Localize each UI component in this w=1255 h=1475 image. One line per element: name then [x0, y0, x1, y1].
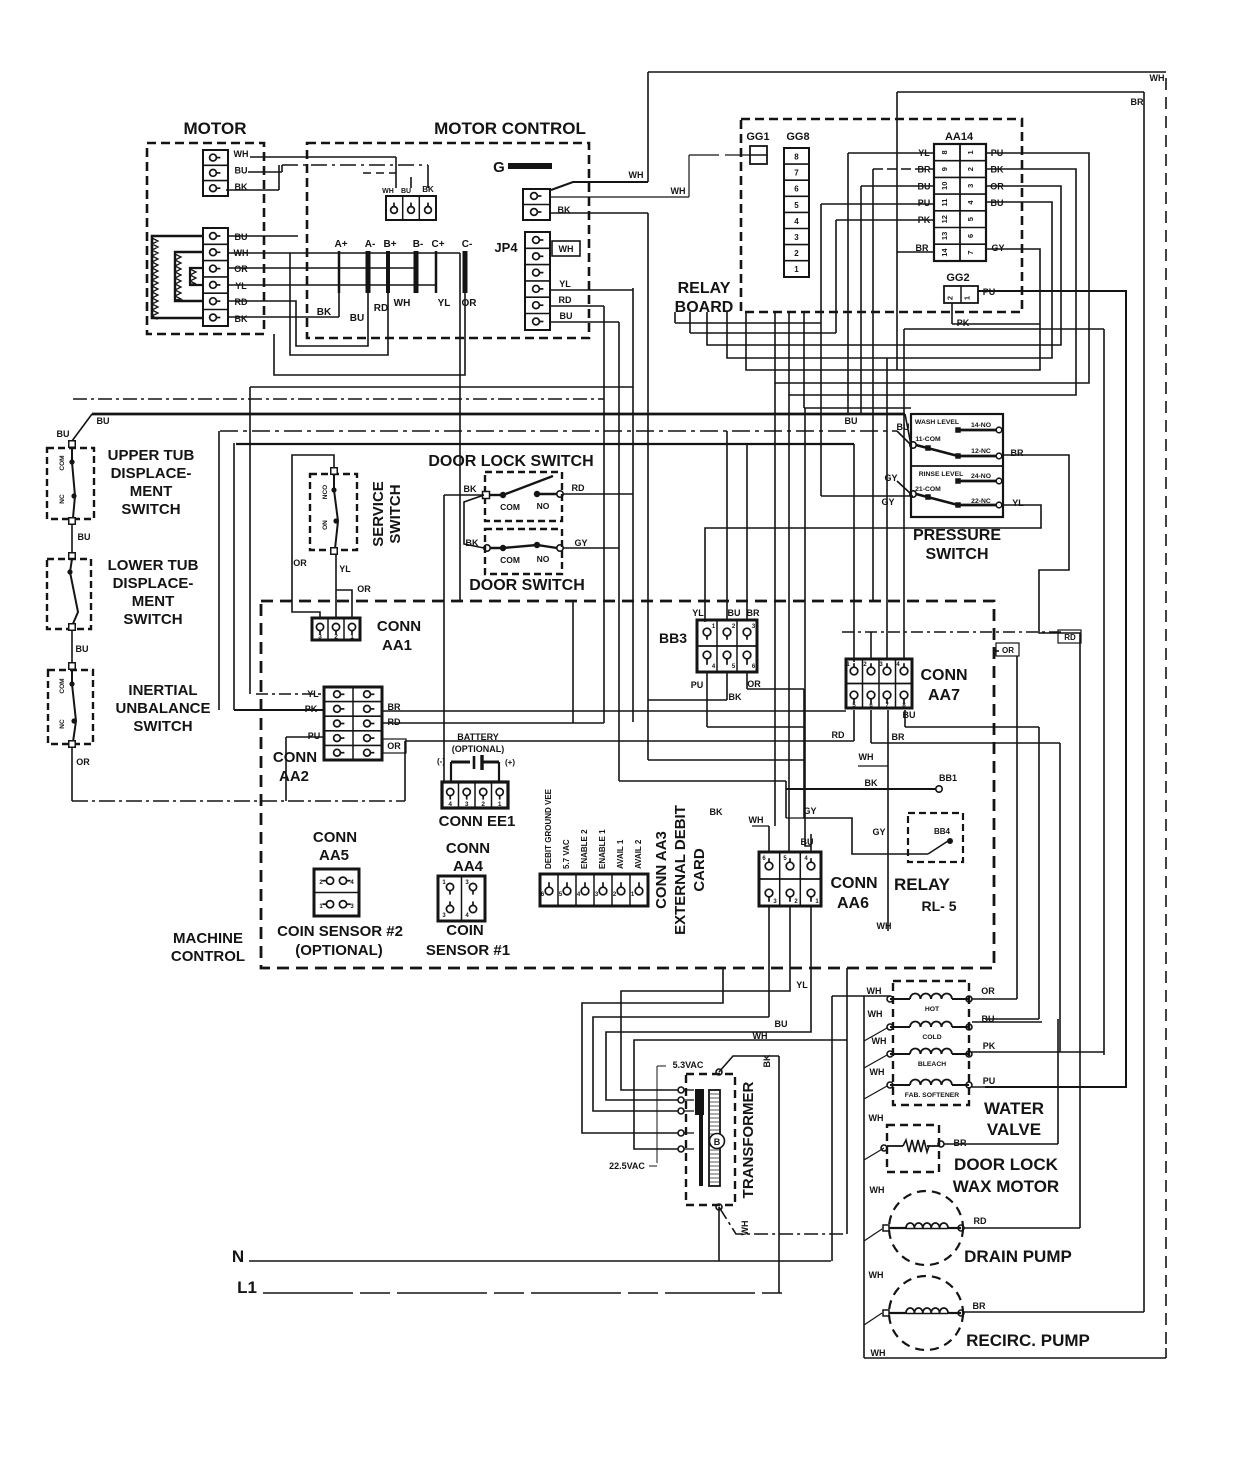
svg-text:BK: BK	[710, 807, 723, 817]
svg-text:CONN: CONN	[920, 667, 967, 684]
svg-text:AA4: AA4	[453, 858, 484, 875]
svg-text:N: N	[232, 1247, 244, 1266]
svg-text:SERVICE: SERVICE	[370, 481, 387, 547]
svg-text:13: 13	[940, 232, 949, 240]
svg-text:2: 2	[946, 296, 955, 300]
svg-text:TRANSFORMER: TRANSFORMER	[740, 1082, 757, 1199]
svg-text:9: 9	[940, 167, 949, 171]
svg-text:(+): (+)	[505, 758, 515, 767]
svg-text:WH: WH	[869, 1270, 884, 1280]
svg-text:(-): (-)	[437, 757, 445, 766]
svg-text:WH: WH	[870, 1067, 885, 1077]
svg-text:WH: WH	[877, 921, 892, 931]
svg-text:YL: YL	[1012, 498, 1024, 508]
svg-text:DOOR SWITCH: DOOR SWITCH	[469, 577, 585, 594]
svg-text:BR: BR	[747, 608, 760, 618]
svg-text:WH: WH	[870, 1185, 885, 1195]
svg-text:BU: BU	[350, 313, 364, 324]
svg-text:COLD: COLD	[922, 1034, 941, 1041]
svg-text:OR: OR	[234, 264, 248, 274]
svg-text:BLEACH: BLEACH	[918, 1061, 946, 1068]
svg-text:OR: OR	[293, 558, 307, 568]
svg-text:COIN SENSOR #2: COIN SENSOR #2	[277, 923, 403, 940]
svg-text:24-NO: 24-NO	[971, 473, 991, 480]
svg-text:PU: PU	[983, 1076, 996, 1086]
svg-text:RD: RD	[388, 717, 401, 727]
svg-text:CONN: CONN	[313, 829, 357, 846]
svg-text:WH: WH	[740, 1221, 750, 1236]
svg-text:5.7 VAC: 5.7 VAC	[562, 839, 571, 869]
svg-text:GY: GY	[872, 827, 885, 837]
svg-text:PU: PU	[691, 680, 704, 690]
svg-text:A-: A-	[365, 239, 376, 250]
svg-text:2: 2	[966, 167, 975, 171]
svg-text:RD: RD	[559, 295, 572, 305]
svg-text:BU: BU	[560, 311, 573, 321]
svg-text:BK: BK	[762, 1054, 772, 1067]
svg-text:BR: BR	[892, 732, 905, 742]
svg-text:SWITCH: SWITCH	[133, 718, 192, 735]
svg-text:BU: BU	[845, 416, 858, 426]
svg-text:BU: BU	[401, 188, 411, 195]
svg-text:BK: BK	[235, 314, 248, 324]
svg-text:BK: BK	[464, 484, 477, 494]
svg-text:1: 1	[966, 150, 975, 154]
svg-text:GG1: GG1	[746, 131, 769, 143]
svg-text:VALVE: VALVE	[987, 1120, 1041, 1139]
svg-text:14: 14	[940, 248, 949, 257]
svg-text:MACHINE: MACHINE	[173, 930, 243, 947]
svg-text:OR: OR	[357, 584, 371, 594]
svg-text:WH: WH	[869, 1113, 884, 1123]
svg-text:COM: COM	[500, 502, 520, 512]
svg-text:PK: PK	[957, 318, 970, 328]
svg-text:CONN: CONN	[273, 749, 317, 766]
svg-text:DOOR LOCK: DOOR LOCK	[954, 1155, 1059, 1174]
svg-text:BATTERY: BATTERY	[457, 732, 499, 742]
svg-text:22-NC: 22-NC	[971, 498, 991, 505]
svg-text:YL: YL	[796, 980, 808, 990]
svg-text:BU: BU	[76, 644, 89, 654]
svg-text:BU: BU	[991, 198, 1004, 208]
svg-text:ENABLE 2: ENABLE 2	[580, 829, 589, 869]
svg-text:COIN: COIN	[446, 922, 484, 939]
svg-text:OR: OR	[387, 741, 401, 751]
svg-text:CONN: CONN	[830, 875, 877, 892]
svg-text:ENABLE 1: ENABLE 1	[598, 829, 607, 869]
svg-text:WH: WH	[629, 170, 644, 180]
svg-text:22.5VAC: 22.5VAC	[609, 1161, 645, 1171]
svg-text:YL: YL	[438, 298, 451, 309]
svg-text:WH: WH	[382, 188, 394, 195]
svg-text:2: 2	[481, 801, 485, 808]
svg-text:RL- 5: RL- 5	[922, 898, 957, 914]
svg-text:WH: WH	[394, 298, 411, 309]
svg-text:NC: NC	[59, 719, 66, 729]
svg-text:BB3: BB3	[659, 630, 687, 646]
svg-text:RINSE LEVEL: RINSE LEVEL	[919, 471, 964, 478]
svg-text:CONN EE1: CONN EE1	[439, 813, 516, 830]
svg-text:BU: BU	[775, 1019, 788, 1029]
svg-text:12-NC: 12-NC	[971, 448, 991, 455]
svg-text:WH: WH	[868, 1009, 883, 1019]
svg-text:NC: NC	[59, 494, 66, 504]
svg-text:5: 5	[966, 217, 975, 221]
svg-text:12: 12	[940, 215, 949, 223]
svg-text:NO: NO	[537, 501, 550, 511]
svg-text:RELAY: RELAY	[894, 875, 951, 894]
svg-text:WH: WH	[859, 752, 874, 762]
svg-text:(OPTIONAL): (OPTIONAL)	[295, 942, 383, 959]
svg-text:SENSOR #1: SENSOR #1	[426, 942, 510, 959]
svg-text:EXTERNAL DEBIT: EXTERNAL DEBIT	[672, 805, 689, 935]
svg-text:YL: YL	[235, 281, 247, 291]
svg-text:SWITCH: SWITCH	[121, 501, 180, 518]
svg-text:8: 8	[794, 153, 799, 162]
svg-text:RD: RD	[374, 303, 388, 314]
svg-text:1: 1	[963, 296, 972, 300]
svg-text:6: 6	[794, 185, 799, 194]
svg-text:COM: COM	[59, 455, 66, 470]
svg-text:B+: B+	[383, 239, 396, 250]
svg-text:2: 2	[334, 634, 338, 641]
svg-text:21-COM: 21-COM	[915, 486, 941, 493]
svg-text:AVAIL 2: AVAIL 2	[634, 839, 643, 869]
svg-text:DISPLACE-: DISPLACE-	[111, 465, 192, 482]
svg-text:PK: PK	[983, 1041, 996, 1051]
svg-text:UNBALANCE: UNBALANCE	[116, 700, 211, 717]
svg-text:1: 1	[794, 265, 799, 274]
svg-text:LOWER TUB: LOWER TUB	[108, 557, 199, 574]
svg-text:DEBIT GROUND VEE: DEBIT GROUND VEE	[544, 788, 553, 869]
svg-text:COM: COM	[59, 678, 66, 693]
svg-text:DRAIN PUMP: DRAIN PUMP	[964, 1247, 1072, 1266]
svg-text:BU: BU	[78, 532, 91, 542]
svg-text:MOTOR: MOTOR	[184, 119, 247, 138]
svg-text:(OPTIONAL): (OPTIONAL)	[452, 744, 505, 754]
svg-text:GY: GY	[803, 806, 816, 816]
svg-text:BB1: BB1	[939, 773, 957, 783]
svg-text:WH: WH	[671, 186, 686, 196]
svg-text:BU: BU	[97, 416, 110, 426]
svg-text:AA6: AA6	[837, 895, 869, 912]
svg-text:GY: GY	[991, 243, 1004, 253]
svg-text:NO: NO	[537, 554, 550, 564]
svg-text:AA2: AA2	[279, 768, 309, 785]
svg-text:WH: WH	[234, 149, 249, 159]
svg-text:AA7: AA7	[928, 687, 960, 704]
svg-text:NCO: NCO	[322, 485, 329, 499]
svg-text:CONTROL: CONTROL	[171, 948, 245, 965]
svg-text:WH: WH	[867, 986, 882, 996]
svg-text:A+: A+	[334, 239, 347, 250]
svg-text:MENT: MENT	[132, 593, 175, 610]
svg-text:10: 10	[940, 182, 949, 190]
svg-text:BR: BR	[1131, 97, 1144, 107]
svg-text:BK: BK	[729, 692, 742, 702]
svg-text:RD: RD	[974, 1216, 987, 1226]
svg-text:B-: B-	[413, 239, 424, 250]
svg-text:4: 4	[794, 217, 799, 226]
svg-text:BU: BU	[235, 166, 248, 176]
svg-text:OR: OR	[76, 757, 90, 767]
svg-text:PRESSURE: PRESSURE	[913, 527, 1001, 544]
svg-text:7: 7	[966, 251, 975, 255]
svg-text:OR: OR	[462, 298, 478, 309]
svg-text:11-COM: 11-COM	[915, 436, 941, 443]
svg-text:8: 8	[940, 150, 949, 154]
svg-text:WH: WH	[753, 1031, 768, 1041]
svg-text:BU: BU	[728, 608, 741, 618]
svg-text:CONN AA3: CONN AA3	[653, 831, 670, 909]
svg-text:7: 7	[794, 169, 799, 178]
svg-text:YL: YL	[692, 608, 704, 618]
svg-text:FAB. SOFTENER: FAB. SOFTENER	[905, 1092, 959, 1099]
svg-text:RD: RD	[235, 297, 248, 307]
svg-text:COM: COM	[500, 555, 520, 565]
svg-text:CONN: CONN	[377, 618, 421, 635]
svg-text:GG2: GG2	[946, 272, 969, 284]
svg-text:ON: ON	[322, 520, 329, 530]
svg-text:WASH LEVEL: WASH LEVEL	[915, 419, 959, 426]
svg-text:UPPER TUB: UPPER TUB	[108, 447, 195, 464]
svg-text:GY: GY	[574, 538, 587, 548]
svg-text:OR: OR	[1002, 646, 1014, 655]
svg-text:BK: BK	[865, 778, 878, 788]
svg-text:INERTIAL: INERTIAL	[128, 682, 197, 699]
svg-text:BOARD: BOARD	[675, 299, 734, 316]
svg-text:3: 3	[465, 801, 469, 808]
svg-text:WH: WH	[871, 1348, 886, 1358]
svg-text:WAX MOTOR: WAX MOTOR	[953, 1177, 1059, 1196]
svg-text:YL: YL	[339, 564, 351, 574]
svg-text:4: 4	[448, 801, 452, 808]
svg-text:WATER: WATER	[984, 1099, 1044, 1118]
svg-text:C-: C-	[462, 239, 473, 250]
svg-text:MENT: MENT	[130, 483, 173, 500]
svg-text:AA5: AA5	[319, 847, 349, 864]
svg-text:WH: WH	[559, 244, 574, 254]
svg-text:BR: BR	[1011, 448, 1024, 458]
svg-text:6: 6	[966, 234, 975, 238]
svg-text:BU: BU	[57, 429, 70, 439]
svg-text:L1: L1	[237, 1278, 257, 1297]
svg-text:OR: OR	[981, 986, 995, 996]
svg-text:RECIRC. PUMP: RECIRC. PUMP	[966, 1331, 1090, 1350]
svg-text:OR: OR	[747, 679, 761, 689]
svg-text:SWITCH: SWITCH	[123, 611, 182, 628]
svg-text:WH: WH	[1150, 73, 1165, 83]
svg-text:1: 1	[350, 634, 354, 641]
svg-text:JP4: JP4	[494, 240, 518, 255]
svg-text:WH: WH	[749, 815, 764, 825]
svg-text:WH: WH	[872, 1036, 887, 1046]
svg-text:YL: YL	[559, 279, 571, 289]
svg-text:DISPLACE-: DISPLACE-	[113, 575, 194, 592]
svg-text:RD: RD	[832, 730, 845, 740]
svg-text:RD: RD	[1064, 633, 1076, 642]
svg-text:3: 3	[794, 233, 799, 242]
svg-text:3: 3	[966, 184, 975, 188]
svg-text:1: 1	[498, 801, 502, 808]
svg-text:11: 11	[940, 199, 949, 207]
svg-text:RELAY: RELAY	[678, 280, 731, 297]
svg-text:C+: C+	[431, 239, 444, 250]
svg-text:14-NO: 14-NO	[971, 422, 991, 429]
svg-text:MOTOR CONTROL: MOTOR CONTROL	[434, 119, 586, 138]
svg-text:5: 5	[794, 201, 799, 210]
svg-text:BB4: BB4	[934, 827, 951, 836]
svg-text:5.3VAC: 5.3VAC	[673, 1060, 704, 1070]
svg-text:SWITCH: SWITCH	[387, 484, 404, 543]
svg-text:BU: BU	[235, 232, 248, 242]
svg-text:SWITCH: SWITCH	[925, 546, 988, 563]
svg-text:RD: RD	[572, 483, 585, 493]
svg-text:CONN: CONN	[446, 840, 490, 857]
svg-text:AA14: AA14	[945, 131, 974, 143]
svg-text:AVAIL 1: AVAIL 1	[616, 839, 625, 869]
svg-text:DOOR LOCK SWITCH: DOOR LOCK SWITCH	[428, 453, 593, 470]
svg-text:AA1: AA1	[382, 637, 412, 654]
svg-text:PU: PU	[308, 731, 321, 741]
svg-text:BR: BR	[973, 1301, 986, 1311]
svg-text:3: 3	[318, 634, 322, 641]
svg-text:2: 2	[794, 249, 799, 258]
svg-text:GG8: GG8	[786, 131, 809, 143]
svg-text:PU: PU	[918, 198, 931, 208]
svg-text:CARD: CARD	[691, 848, 708, 891]
svg-text:GY: GY	[881, 497, 894, 507]
svg-text:HOT: HOT	[925, 1006, 940, 1013]
svg-text:BR: BR	[954, 1138, 967, 1148]
svg-text:G: G	[493, 159, 505, 176]
svg-text:B: B	[714, 1137, 721, 1147]
